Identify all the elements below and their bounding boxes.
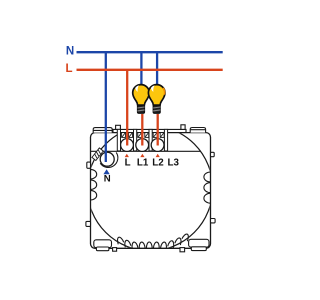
module U1 bottom vent bump 1: [116, 236, 124, 244]
module U1 terminal block divider 2: [134, 129, 137, 151]
module U1 bottom vent bump 4: [139, 242, 145, 249]
module U1 right coil loop 3: [204, 193, 211, 203]
module U1 faceplate bottom edge: [91, 150, 201, 152]
module U1 terminal block divider 1: [117, 129, 120, 151]
module U1 left coil loop 3: [91, 190, 97, 200]
terminal N screw: [100, 152, 114, 166]
svg-text:L1: L1: [137, 158, 149, 169]
module U1 bottom clip left: [113, 248, 117, 252]
module U1 bottom vent bump 5: [146, 242, 152, 248]
svg-text:L2: L2: [152, 158, 164, 169]
N clamp slanted hatched block: [92, 148, 103, 161]
lamp E1: [133, 85, 150, 114]
terminal L1 screw: [136, 139, 149, 152]
module U1 left side clip lower: [86, 221, 91, 226]
module U1 right foot: [189, 239, 209, 250]
terminal L2 screw: [151, 139, 164, 152]
module U1 bottom vent bump 3: [131, 242, 138, 249]
svg-text:L: L: [125, 158, 131, 169]
module U1 right coil loop 2: [204, 183, 211, 193]
wire lamp E2 return to terminal L2: [157, 114, 159, 146]
module U1 right coil loop 1: [204, 172, 211, 182]
module U1 right side clip upper: [211, 152, 215, 156]
module U1 rim clip right: [181, 125, 185, 130]
svg-text:N: N: [66, 46, 74, 58]
svg-text:L: L: [65, 63, 72, 75]
module U1 bottom vent bump 8: [168, 240, 175, 248]
module U1 left coil loop 1: [91, 169, 97, 179]
module U1 bottom clip right: [180, 248, 185, 252]
svg-text:N: N: [104, 173, 111, 184]
module U1 bottom vent bump 7: [161, 242, 168, 249]
module U1 bottom vent bump 10: [182, 233, 190, 241]
terminal L1 wire clamp (hatched): [138, 133, 149, 138]
wire live drop to terminal L: [126, 70, 128, 146]
wire lamp E1 return to terminal L1: [141, 114, 143, 146]
module U1 rim clip left: [116, 125, 121, 129]
module U1 left side clip upper: [87, 162, 91, 168]
flow arrow at terminal L2: [156, 154, 160, 157]
module U1 rotary drum (big circle, clipped by body): [87, 126, 212, 251]
lamp feed wire (blue) to lamp E2: [156, 52, 158, 84]
module U1 bottom vent bump 6: [153, 242, 159, 249]
terminal L screw: [121, 139, 134, 152]
module U1 left coil loop 2: [91, 180, 97, 190]
module U1 right side clip lower: [211, 219, 216, 223]
flow arrow at terminal L: [125, 154, 129, 157]
wire N bus: [77, 51, 223, 53]
module U1 raised terminal-block rim: [113, 129, 186, 132]
terminal N clamp cage: [100, 152, 118, 167]
terminal L wire clamp (hatched): [122, 133, 133, 138]
module U1 outer body: [91, 133, 211, 249]
flow arrow at terminal L1: [140, 154, 144, 157]
wire L bus: [77, 69, 223, 71]
module U1 left foot: [94, 240, 112, 251]
flow arrow at terminal N: [103, 169, 109, 174]
wire neutral drop to terminal N: [105, 52, 107, 162]
svg-text:L3: L3: [167, 158, 179, 169]
terminal L2 wire clamp (hatched): [153, 133, 164, 138]
module U1 top-left mounting tab: [93, 128, 112, 133]
lamp E2: [148, 85, 165, 114]
lamp feed wire (blue) to lamp E1: [140, 52, 142, 84]
module U1 top-right mounting tab: [190, 128, 205, 133]
module U1 terminal block divider 3: [149, 129, 152, 151]
module U1 bottom vent bump 9: [175, 237, 183, 245]
module U1 terminal block divider 4: [164, 129, 167, 151]
module U1 bottom vent bump 2: [124, 240, 131, 248]
